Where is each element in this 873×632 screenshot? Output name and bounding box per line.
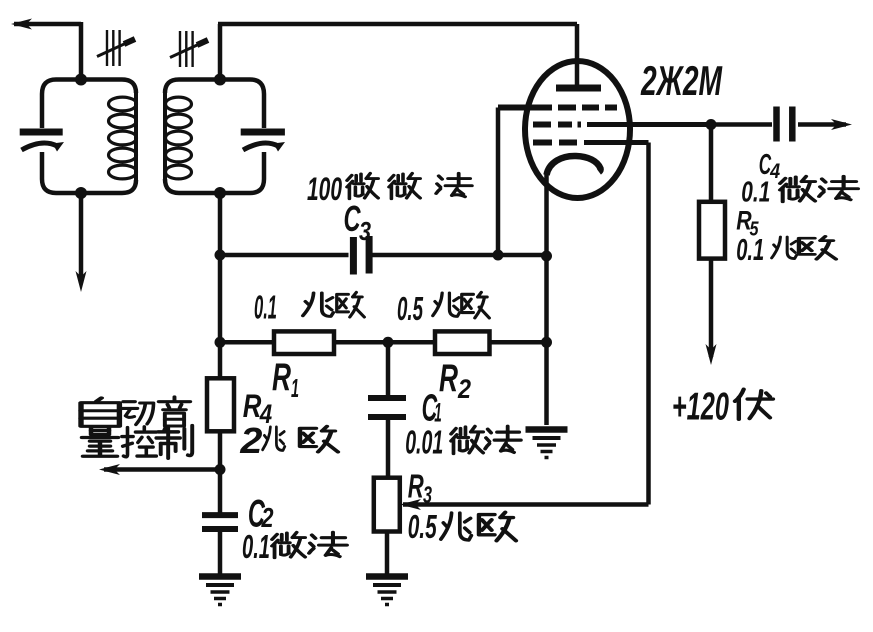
- svg-text:R: R: [243, 388, 262, 424]
- svg-text:+120: +120: [672, 386, 729, 429]
- svg-text:100: 100: [307, 171, 342, 207]
- svg-text:0.01: 0.01: [405, 424, 443, 461]
- svg-text:R: R: [272, 356, 291, 399]
- svg-text:4: 4: [769, 160, 780, 183]
- svg-text:2: 2: [239, 420, 262, 461]
- svg-text:1: 1: [291, 373, 299, 403]
- svg-text:3: 3: [359, 216, 371, 246]
- svg-text:2: 2: [457, 374, 471, 404]
- svg-text:0.5: 0.5: [397, 290, 423, 327]
- svg-text:R: R: [408, 468, 424, 505]
- svg-text:2Ж2M: 2Ж2M: [640, 57, 722, 104]
- svg-text:0.1: 0.1: [741, 177, 770, 209]
- svg-text:0.1: 0.1: [254, 289, 277, 326]
- svg-text:0.1: 0.1: [736, 232, 764, 267]
- svg-text:3: 3: [423, 482, 432, 509]
- svg-text:0.1: 0.1: [242, 528, 270, 565]
- svg-text:0.5: 0.5: [408, 508, 437, 545]
- svg-text:R: R: [439, 357, 458, 400]
